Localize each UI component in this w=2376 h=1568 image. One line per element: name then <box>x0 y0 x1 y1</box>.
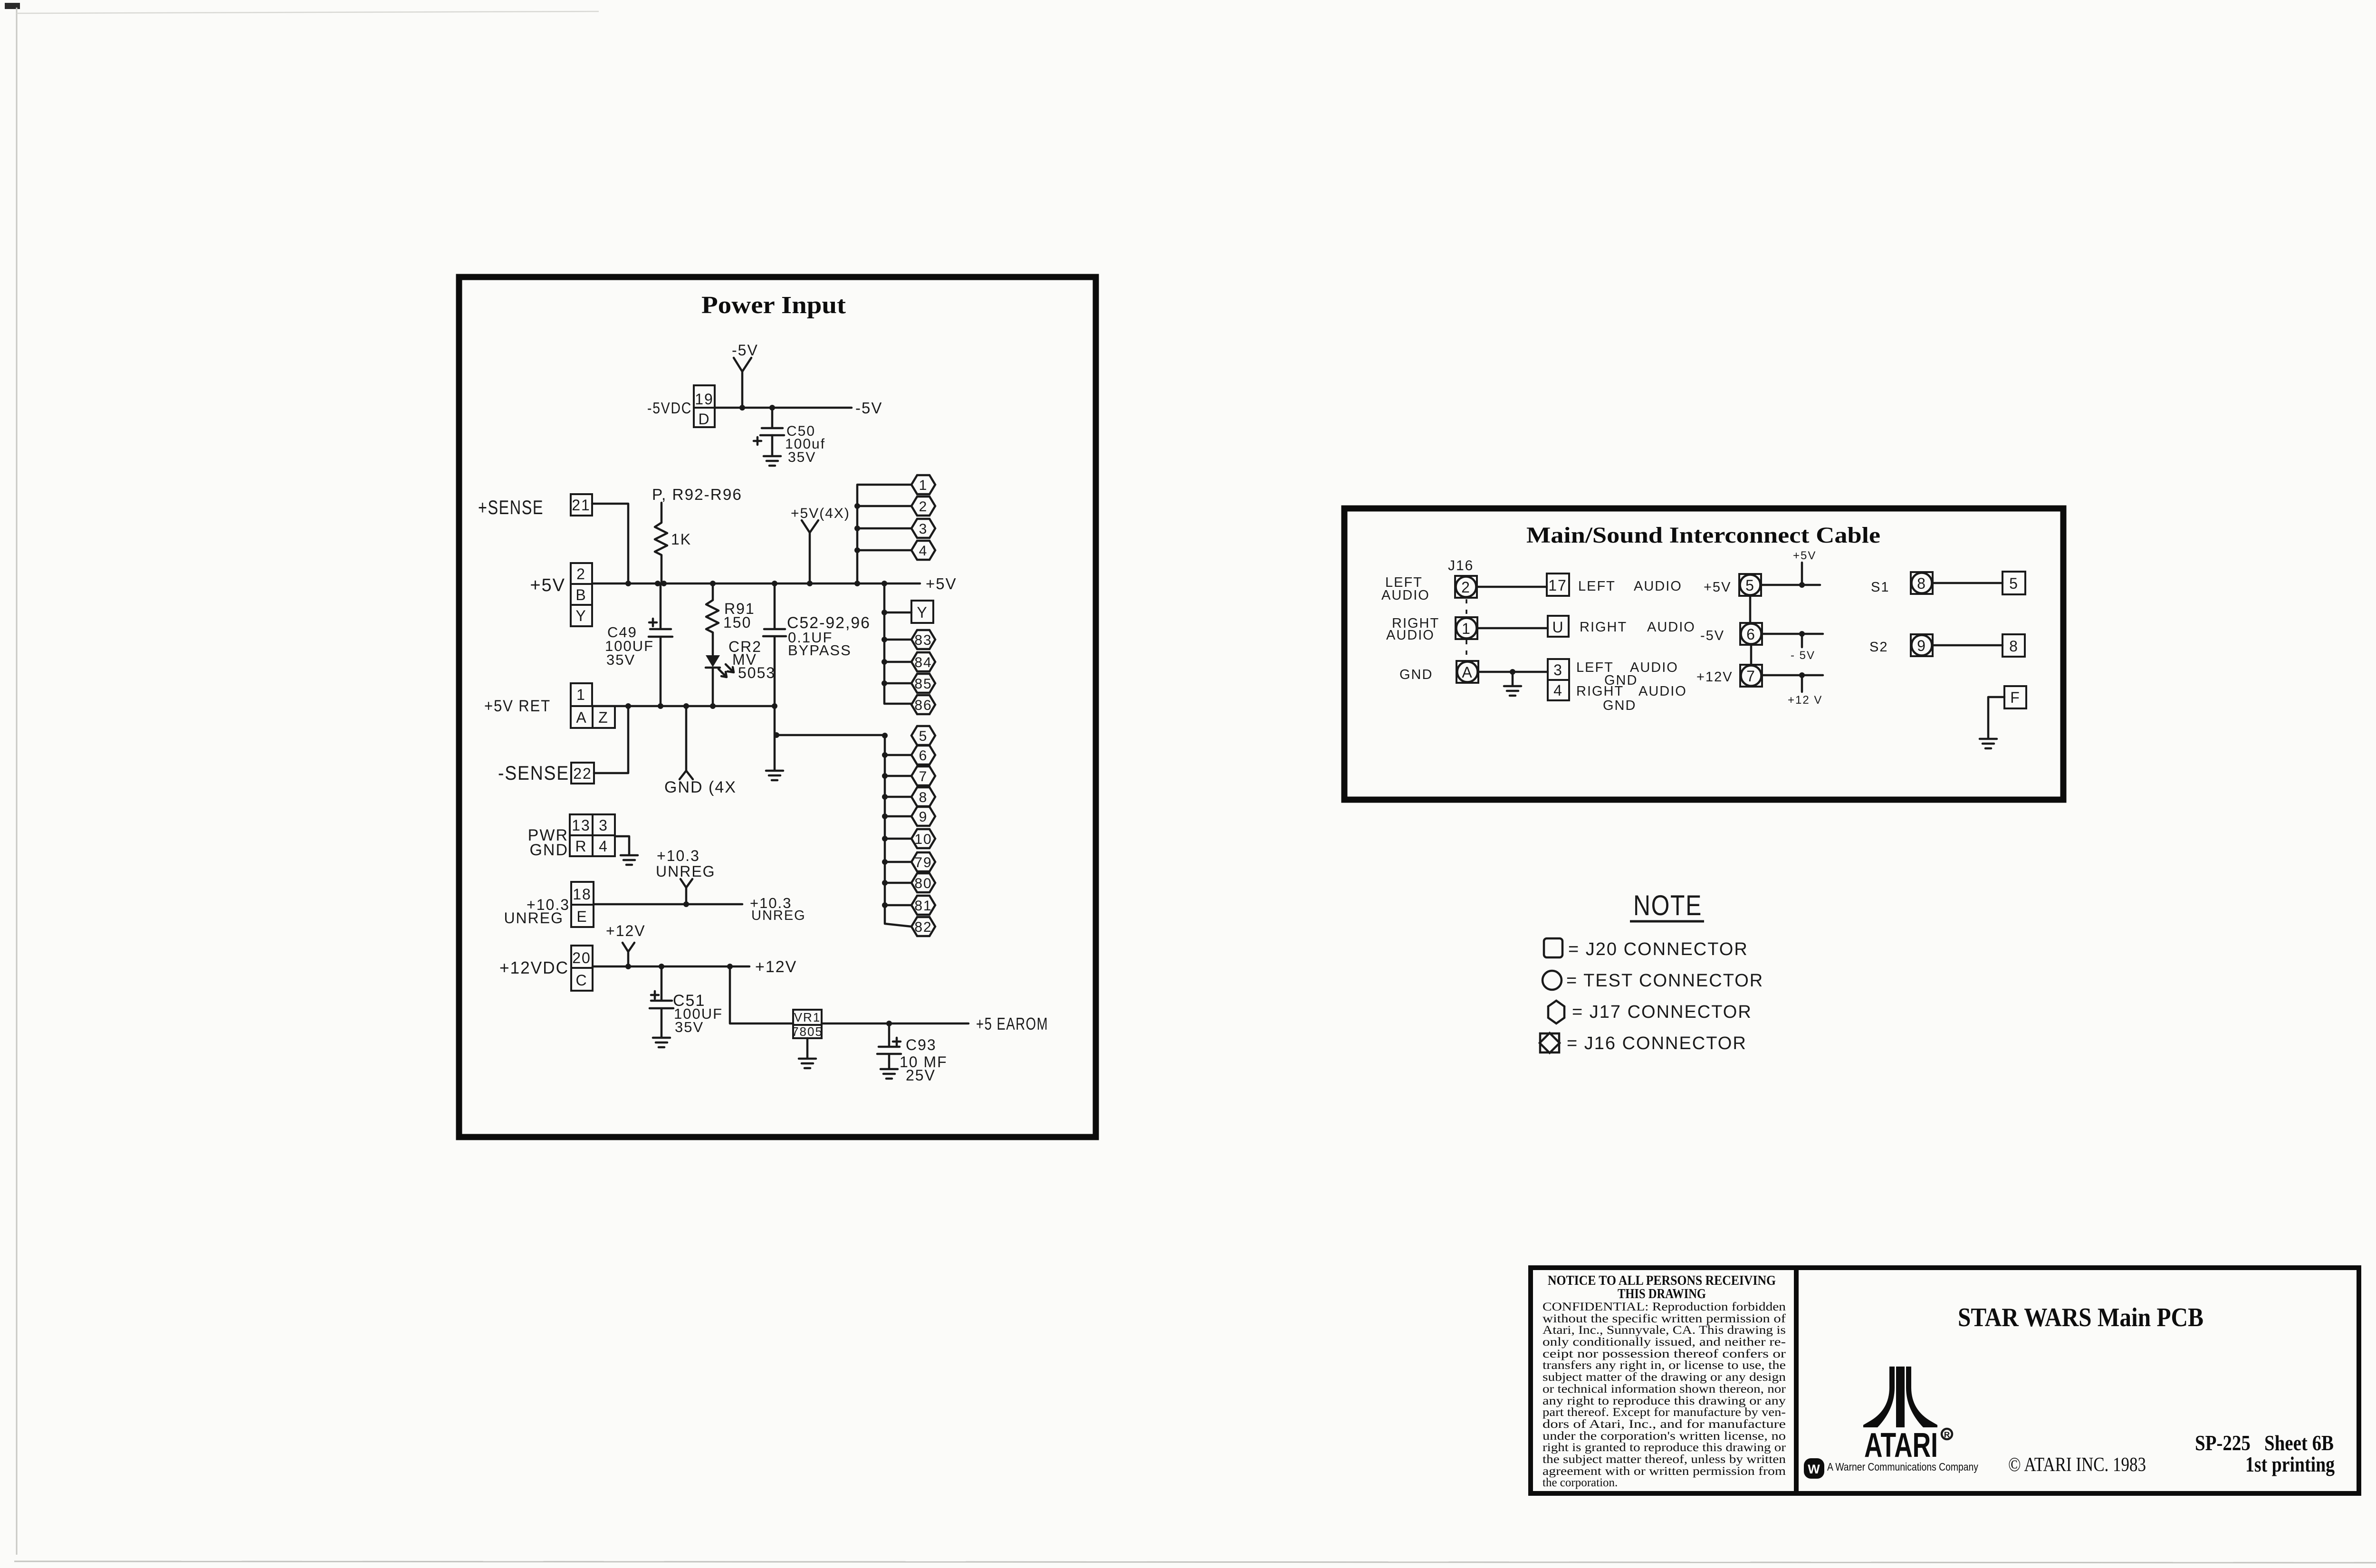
capacitor C51 <box>650 966 673 1037</box>
label RIGHT AUDIO (left) <box>1386 616 1439 643</box>
junction pin6 wire <box>1799 631 1805 637</box>
svg-text:85: 85 <box>914 676 932 692</box>
connector J20 pin 4 <box>1548 680 1569 700</box>
svg-text:35V: 35V <box>606 651 635 668</box>
svg-text:6: 6 <box>1746 626 1756 643</box>
svg-text:R: R <box>575 838 587 855</box>
svg-text:22: 22 <box>573 765 592 782</box>
svg-text:S2: S2 <box>1869 640 1888 655</box>
connector J17 pin 86 <box>911 695 935 714</box>
connector J20 pin F <box>2004 686 2026 708</box>
svg-text:3: 3 <box>1553 661 1563 679</box>
svg-text:2: 2 <box>576 565 586 583</box>
wire to hex 81 <box>885 904 911 907</box>
svg-text:Y: Y <box>575 607 586 624</box>
svg-text:RIGHT: RIGHT <box>1576 684 1624 699</box>
junction pin7 wire <box>1799 672 1805 678</box>
svg-text:R: R <box>1944 1430 1950 1439</box>
label LEFT AUDIO (left) <box>1381 575 1430 603</box>
svg-text:CONFIDENTIAL: Reproduction f: CONFIDENTIAL: Reproduction forbidden <box>1542 1300 1786 1313</box>
junctions on 5-82 bus <box>882 752 888 908</box>
connector J16 pin 9 <box>1911 634 1933 656</box>
connector J17 pin 82 <box>911 917 935 936</box>
title block divider <box>1794 1268 1799 1493</box>
svg-text:Main/Sound Interconnect Cable: Main/Sound Interconnect Cable <box>1526 523 1880 548</box>
connector J16 pin 5 <box>1739 574 1761 596</box>
svg-text:A Warner Communications Compan: A Warner Communications Company <box>1827 1461 1978 1473</box>
Warner Communications logo <box>1804 1458 1824 1479</box>
wire to hex pin 3 <box>857 527 911 530</box>
ground below C50 <box>764 456 781 466</box>
connector J20 pin 18 / E <box>571 882 594 927</box>
connector J17 pin 2 <box>911 497 935 516</box>
svg-text:8: 8 <box>1917 575 1926 592</box>
ground below pin F <box>1980 739 1997 748</box>
svg-text:Atari, Inc., Sunnyvale, CA. Th: Atari, Inc., Sunnyvale, CA. This drawing… <box>1542 1324 1786 1337</box>
legend J16 symbol <box>1540 1033 1560 1053</box>
svg-text:25V: 25V <box>906 1067 936 1084</box>
svg-text:part thereof. Except for manuf: part thereof. Except for manufacture by … <box>1542 1406 1786 1419</box>
svg-text:GND: GND <box>529 841 568 859</box>
svg-text:7: 7 <box>919 769 928 784</box>
connector J16 pin 2 <box>1455 576 1477 598</box>
svg-text:84: 84 <box>914 655 932 670</box>
labels +10.3 UNREG (left) <box>504 896 570 927</box>
notice heading <box>1548 1273 1776 1301</box>
connector J20 pin 22 <box>571 763 594 784</box>
wire pin22 to +5V RET rail <box>594 706 628 773</box>
svg-text:81: 81 <box>914 898 932 914</box>
svg-text:-5V: -5V <box>1700 628 1725 643</box>
value label C49 100UF 35V <box>605 624 654 668</box>
svg-text:86: 86 <box>914 698 932 713</box>
svg-text:UNREG: UNREG <box>504 909 564 927</box>
connector J17 pin 8 <box>911 787 935 806</box>
bus for J17 pins 5-82 <box>885 735 911 927</box>
connector J17 pin 6 <box>911 746 935 765</box>
svg-text:2: 2 <box>919 499 928 515</box>
wire pin2 to 17 <box>1477 586 1547 588</box>
svg-text:+5V: +5V <box>1793 549 1816 562</box>
svg-text:ceipt nor possession thereo: ceipt nor possession thereof confers or <box>1542 1348 1786 1360</box>
capacitor C52-92,96 bypass <box>763 583 786 706</box>
wire to box Y <box>884 612 911 614</box>
svg-text:83: 83 <box>914 632 932 648</box>
junctions on +5V RET rail <box>625 703 777 709</box>
dashed link pin2-pin1 <box>1466 599 1467 617</box>
svg-text:UNREG: UNREG <box>656 863 716 880</box>
svg-text:- 5V: - 5V <box>1791 649 1815 662</box>
wire +5V main rail <box>592 583 920 585</box>
connector J20 pin 3 <box>1548 659 1569 680</box>
value label C50 100uf 35V <box>785 423 825 465</box>
connector J16 pin 8 <box>1911 572 1933 594</box>
wire pin6 right <box>1763 633 1823 635</box>
svg-text:VR1: VR1 <box>794 1010 821 1024</box>
wire pin9 to 8 <box>1933 644 2002 647</box>
legend J20 symbol <box>1544 938 1562 957</box>
wire pin5 right <box>1762 584 1820 586</box>
wire pin7 right <box>1763 674 1823 677</box>
svg-text:S1: S1 <box>1871 580 1889 595</box>
svg-text:4: 4 <box>919 543 928 559</box>
svg-text:7805: 7805 <box>792 1024 823 1039</box>
svg-text:agreement with or written perm: agreement with or written permission fro… <box>1542 1465 1786 1478</box>
connector J17 pin 84 <box>911 652 935 671</box>
wire pin1 to U <box>1477 627 1548 630</box>
capacitor C93 <box>877 1023 901 1068</box>
wire +5V RET rail <box>592 705 775 708</box>
value label CR2 MV 5053 <box>728 638 776 681</box>
svg-text:79: 79 <box>914 855 932 870</box>
connector J20 pin 5 (right) <box>2002 572 2025 594</box>
connector J17 pin 81 <box>911 896 935 915</box>
svg-text:= J16 CONNECTOR: = J16 CONNECTOR <box>1567 1033 1747 1053</box>
junction on -5V rail at flag <box>739 405 745 411</box>
svg-text:= J20 CONNECTOR: = J20 CONNECTOR <box>1568 939 1748 959</box>
svg-text:8: 8 <box>919 790 928 805</box>
svg-text:P, R92-R96: P, R92-R96 <box>652 486 742 503</box>
title block border <box>1531 1268 2359 1493</box>
svg-text:A: A <box>1462 664 1473 681</box>
wire +10.3 UNREG rail <box>594 903 742 906</box>
svg-text:3: 3 <box>599 817 608 834</box>
ground below PWR GND <box>621 855 638 865</box>
stub to -5V label <box>1801 634 1803 647</box>
wire to hex 83 <box>884 639 911 641</box>
value label C51 100UF 35V <box>673 992 723 1035</box>
ground below VR1 <box>799 1038 816 1068</box>
legend J17 symbol <box>1548 1001 1564 1023</box>
svg-text:C: C <box>575 972 587 989</box>
junction +10.3 at flag <box>683 901 689 907</box>
junctions on +5V rail <box>625 581 887 586</box>
page edge artifact top-left dash <box>5 3 20 9</box>
svg-text:the corporation.: the corporation. <box>1542 1476 1618 1489</box>
svg-text:BYPASS: BYPASS <box>788 642 852 659</box>
svg-text:+5 EAROM: +5 EAROM <box>976 1014 1048 1033</box>
junctions on hex 1-4 bus <box>854 503 860 553</box>
power flag +10.3 UNREG <box>656 847 716 904</box>
svg-text:GND: GND <box>1399 667 1433 682</box>
wire -5V rail <box>715 407 852 409</box>
svg-text:RIGHT: RIGHT <box>1580 620 1627 635</box>
svg-text:8: 8 <box>2009 638 2019 655</box>
bus to J17 hexagon pins 1-4 <box>857 485 911 583</box>
Power Input sheet border frame <box>459 277 1096 1137</box>
power flag +5V (4X) <box>791 506 850 583</box>
connector J16 pin 7 <box>1740 665 1762 687</box>
svg-text:GND: GND <box>1603 698 1636 713</box>
svg-text:13: 13 <box>572 817 591 834</box>
svg-text:only conditionally issued,: only conditionally issued, and neither r… <box>1542 1336 1786 1348</box>
svg-text:-5V: -5V <box>855 399 882 417</box>
svg-text:10: 10 <box>914 832 932 847</box>
wire to hex 84 <box>884 661 911 663</box>
connector J17 pin 4 <box>911 541 935 560</box>
svg-text:1K: 1K <box>671 531 691 548</box>
label LEFT AUDIO GND <box>1576 660 1678 688</box>
svg-text:without the specific written p: without the specific written permission … <box>1542 1312 1786 1325</box>
connector J20 pin Y <box>911 601 933 623</box>
capacitor C50 <box>754 408 784 455</box>
wire VR1 output +5 EAROM <box>822 1023 968 1025</box>
svg-text:4: 4 <box>599 838 608 855</box>
power flag +12V <box>606 922 646 966</box>
heading NOTE <box>1630 889 1704 921</box>
Main/Sound sheet border frame <box>1344 508 2063 800</box>
svg-text:6: 6 <box>919 748 928 764</box>
svg-text:19: 19 <box>695 391 714 408</box>
svg-text:© ATARI INC. 1983: © ATARI INC. 1983 <box>2008 1454 2146 1476</box>
svg-text:+SENSE: +SENSE <box>478 496 544 518</box>
svg-text:-5V: -5V <box>732 342 758 359</box>
wire to hex 79 <box>885 861 911 863</box>
link pin6-pin7 <box>1750 645 1753 664</box>
svg-text:or technical information shown: or technical information shown thereon, … <box>1542 1383 1786 1396</box>
svg-text:UNREG: UNREG <box>751 908 806 923</box>
voltage regulator VR1 7805 <box>792 1010 823 1039</box>
svg-text:+12VDC: +12VDC <box>499 958 569 977</box>
svg-text:80: 80 <box>914 876 932 891</box>
svg-text:20: 20 <box>572 949 591 966</box>
page edge artifact left vertical line <box>16 8 18 1555</box>
svg-text:U: U <box>1552 619 1564 636</box>
svg-text:= J17 CONNECTOR: = J17 CONNECTOR <box>1572 1002 1752 1022</box>
svg-text:21: 21 <box>572 497 591 514</box>
connector J20 pin 17 <box>1547 574 1569 596</box>
connector J17 pin 83 <box>911 630 935 649</box>
connector J17 pin 79 <box>911 852 935 871</box>
svg-text:+5V: +5V <box>926 575 957 593</box>
ground below GND wire <box>1504 672 1521 696</box>
svg-text:1: 1 <box>1462 620 1471 637</box>
wire to hex 7 <box>885 775 911 777</box>
connector J17 pin 9 <box>911 807 935 826</box>
connector J17 pin 85 <box>911 674 935 693</box>
svg-text:AUDIO: AUDIO <box>1381 588 1430 603</box>
ground below C52 <box>766 706 783 780</box>
wire ground rail to J17 5-82 bus <box>776 734 885 736</box>
svg-text:-SENSE: -SENSE <box>498 762 569 784</box>
LED CR2 MV5053 <box>706 655 734 706</box>
svg-text:Z: Z <box>598 709 609 726</box>
value label C93 10MF 25V <box>900 1036 948 1084</box>
stub to +12V label <box>1801 675 1803 692</box>
svg-text:+5V: +5V <box>1704 580 1731 595</box>
svg-text:3: 3 <box>919 521 928 537</box>
svg-text:Power Input: Power Input <box>701 292 846 319</box>
connector J17 pin 3 <box>911 519 935 538</box>
resistor R92-R96 1K <box>655 503 667 583</box>
svg-text:transfers any right in, or lic: transfers any right in, or license to us… <box>1542 1359 1786 1372</box>
svg-text:5: 5 <box>2009 575 2019 592</box>
svg-text:NOTE: NOTE <box>1633 889 1702 921</box>
wire pin8 to 5 <box>1933 582 2002 584</box>
svg-text:D: D <box>698 411 710 428</box>
resistor R91 150 <box>706 583 719 655</box>
capacitor C49 <box>649 583 672 706</box>
Atari Fuji logo <box>1863 1367 1937 1427</box>
junction on GND wire <box>1510 669 1515 675</box>
svg-text:AUDIO: AUDIO <box>1634 579 1682 594</box>
power flag -5V <box>732 342 758 407</box>
svg-text:subject matter of the drawing: subject matter of the drawing or any des… <box>1542 1371 1786 1384</box>
svg-text:ATARI: ATARI <box>1864 1426 1938 1464</box>
connector J17 pin 10 <box>911 829 935 848</box>
value label C52-92,96 0.1UF BYPASS <box>787 614 871 659</box>
ground below C93 <box>881 1069 898 1079</box>
svg-text:+5V RET: +5V RET <box>484 697 551 715</box>
junctions on Y/83-86 bus <box>881 610 887 686</box>
svg-text:+5V(4X): +5V(4X) <box>791 506 850 521</box>
svg-text:+12 V: +12 V <box>1788 694 1822 707</box>
page edge artifact top horizontal line <box>17 11 599 13</box>
connector J16 pin 6 <box>1740 623 1762 645</box>
svg-text:STAR WARS Main PCB: STAR WARS Main PCB <box>1958 1303 2204 1332</box>
svg-text:5053: 5053 <box>738 664 776 681</box>
svg-text:1st printing: 1st printing <box>2245 1453 2335 1476</box>
link pin5-pin6 <box>1749 596 1752 622</box>
label LEFT AUDIO (right) <box>1578 579 1682 594</box>
labels PWR GND <box>528 826 568 859</box>
svg-text:7: 7 <box>1746 668 1756 685</box>
svg-text:9: 9 <box>919 809 928 825</box>
svg-text:GND (4X: GND (4X <box>664 778 737 796</box>
junction on -5V rail at C50 <box>769 405 775 411</box>
svg-text:A: A <box>576 709 587 726</box>
dashed link pin1-pinA <box>1466 640 1467 660</box>
ground flag GND (4X <box>664 706 737 796</box>
connector J17 pin 80 <box>911 873 935 892</box>
svg-text:+12V: +12V <box>755 958 797 976</box>
connector J20 pin 21 <box>571 494 592 516</box>
svg-text:J16: J16 <box>1448 558 1474 574</box>
svg-text:18: 18 <box>573 886 592 903</box>
junction at C93 <box>886 1021 892 1026</box>
wire pin21 to +5V rail <box>592 504 628 583</box>
wire pinA to 3 <box>1478 671 1548 673</box>
wire to hex 10 <box>885 838 911 840</box>
svg-text:150: 150 <box>723 614 751 631</box>
svg-text:E: E <box>576 908 587 925</box>
svg-text:35V: 35V <box>675 1019 704 1035</box>
connector J20 pin 19 / D <box>694 385 715 428</box>
page edge artifact bottom horizontal line <box>14 1561 2376 1563</box>
svg-text:LEFT: LEFT <box>1578 579 1616 594</box>
connector J20 pins 13 / 3 / R / 4 <box>570 814 615 856</box>
connector J20 pin 8 (right) <box>2002 634 2025 657</box>
svg-text:F: F <box>2010 689 2021 706</box>
svg-text:C93: C93 <box>906 1036 937 1053</box>
svg-text:1: 1 <box>919 478 928 493</box>
legend TEST symbol <box>1542 971 1562 990</box>
svg-text:5: 5 <box>919 728 928 744</box>
svg-text:THIS DRAWING: THIS DRAWING <box>1618 1286 1706 1301</box>
connector J20 pin 1 / A / Z <box>571 683 615 728</box>
svg-text:+12V: +12V <box>606 922 646 939</box>
svg-text:the subject matter thereof, un: the subject matter thereof, unless by wr… <box>1542 1453 1786 1466</box>
bus +5V to Y / 83-86 <box>884 583 911 704</box>
wire PWR GND to ground <box>615 836 629 854</box>
connector J20 pin 20 / C <box>571 946 593 991</box>
connector J20 pins 2 / B / Y <box>571 563 592 626</box>
svg-text:+10.3: +10.3 <box>657 847 700 864</box>
label RIGHT AUDIO (right) <box>1580 620 1696 635</box>
svg-text:right is granted to reproduce: right is granted to reproduce this drawi… <box>1542 1441 1786 1454</box>
wire to hex 6 <box>885 754 911 756</box>
wire to hex 85 <box>884 682 911 685</box>
svg-text:AUDIO: AUDIO <box>1386 628 1435 643</box>
svg-text:under the corporation's writte: under the corporation's written license,… <box>1542 1430 1786 1443</box>
wire +12V rail <box>593 966 749 968</box>
svg-text:dors of Atari, Inc., and: dors of Atari, Inc., and for manufacture <box>1542 1418 1786 1431</box>
svg-text:W: W <box>1808 1462 1820 1476</box>
junction pin5 wire <box>1799 582 1805 588</box>
notice body text <box>1542 1300 1786 1489</box>
wire to hex 9 <box>885 815 911 818</box>
wire to hex pin 2 <box>857 505 911 507</box>
connector J17 pin 1 <box>911 475 935 494</box>
svg-text:+12V: +12V <box>1696 669 1733 685</box>
ground below C51 <box>653 1038 670 1047</box>
svg-text:AUDIO: AUDIO <box>1647 620 1696 635</box>
junction at right of 5-82 feed <box>882 733 888 738</box>
connector J16 pin 1 <box>1456 617 1477 639</box>
svg-text:9: 9 <box>1917 637 1926 654</box>
wire pinF to ground <box>1988 697 2004 738</box>
registered trademark symbol <box>1942 1429 1952 1439</box>
connector J16 pin A <box>1456 661 1478 683</box>
wire to hex pin 4 <box>857 549 911 552</box>
svg-text:82: 82 <box>914 919 932 935</box>
svg-text:35V: 35V <box>788 449 816 465</box>
svg-text:5: 5 <box>1745 577 1755 594</box>
svg-text:+5V: +5V <box>530 575 565 595</box>
wire to hex 80 <box>885 882 911 884</box>
svg-text:= TEST CONNECTOR: = TEST CONNECTOR <box>1566 971 1763 991</box>
svg-text:-5VDC: -5VDC <box>647 399 692 417</box>
labels +10.3 UNREG (right) <box>750 895 806 923</box>
connector J17 pin 5 <box>911 726 935 745</box>
svg-text:4: 4 <box>1553 682 1563 699</box>
svg-text:1: 1 <box>576 686 586 703</box>
wire to hex 8 <box>885 796 911 798</box>
svg-text:2: 2 <box>1461 579 1471 596</box>
value label R91 150 <box>723 600 755 631</box>
wire +12V to VR1 <box>730 966 793 1023</box>
label RIGHT AUDIO GND <box>1576 684 1687 713</box>
svg-text:Y: Y <box>917 604 928 621</box>
junctions on +12V rail <box>625 964 733 969</box>
power flag +5V (interconnect) <box>1793 549 1816 585</box>
junction at left of 5-82 feed <box>774 732 779 738</box>
svg-text:17: 17 <box>1548 577 1567 594</box>
svg-text:SP-225 Sheet 6B: SP-225 Sheet 6B <box>2195 1431 2334 1455</box>
svg-text:B: B <box>575 586 586 603</box>
svg-text:AUDIO: AUDIO <box>1638 684 1687 699</box>
svg-text:any right to reproduce this dr: any right to reproduce this drawing or a… <box>1542 1395 1786 1407</box>
connector J17 pin 7 <box>911 766 935 785</box>
connector J20 pin U <box>1548 616 1569 637</box>
